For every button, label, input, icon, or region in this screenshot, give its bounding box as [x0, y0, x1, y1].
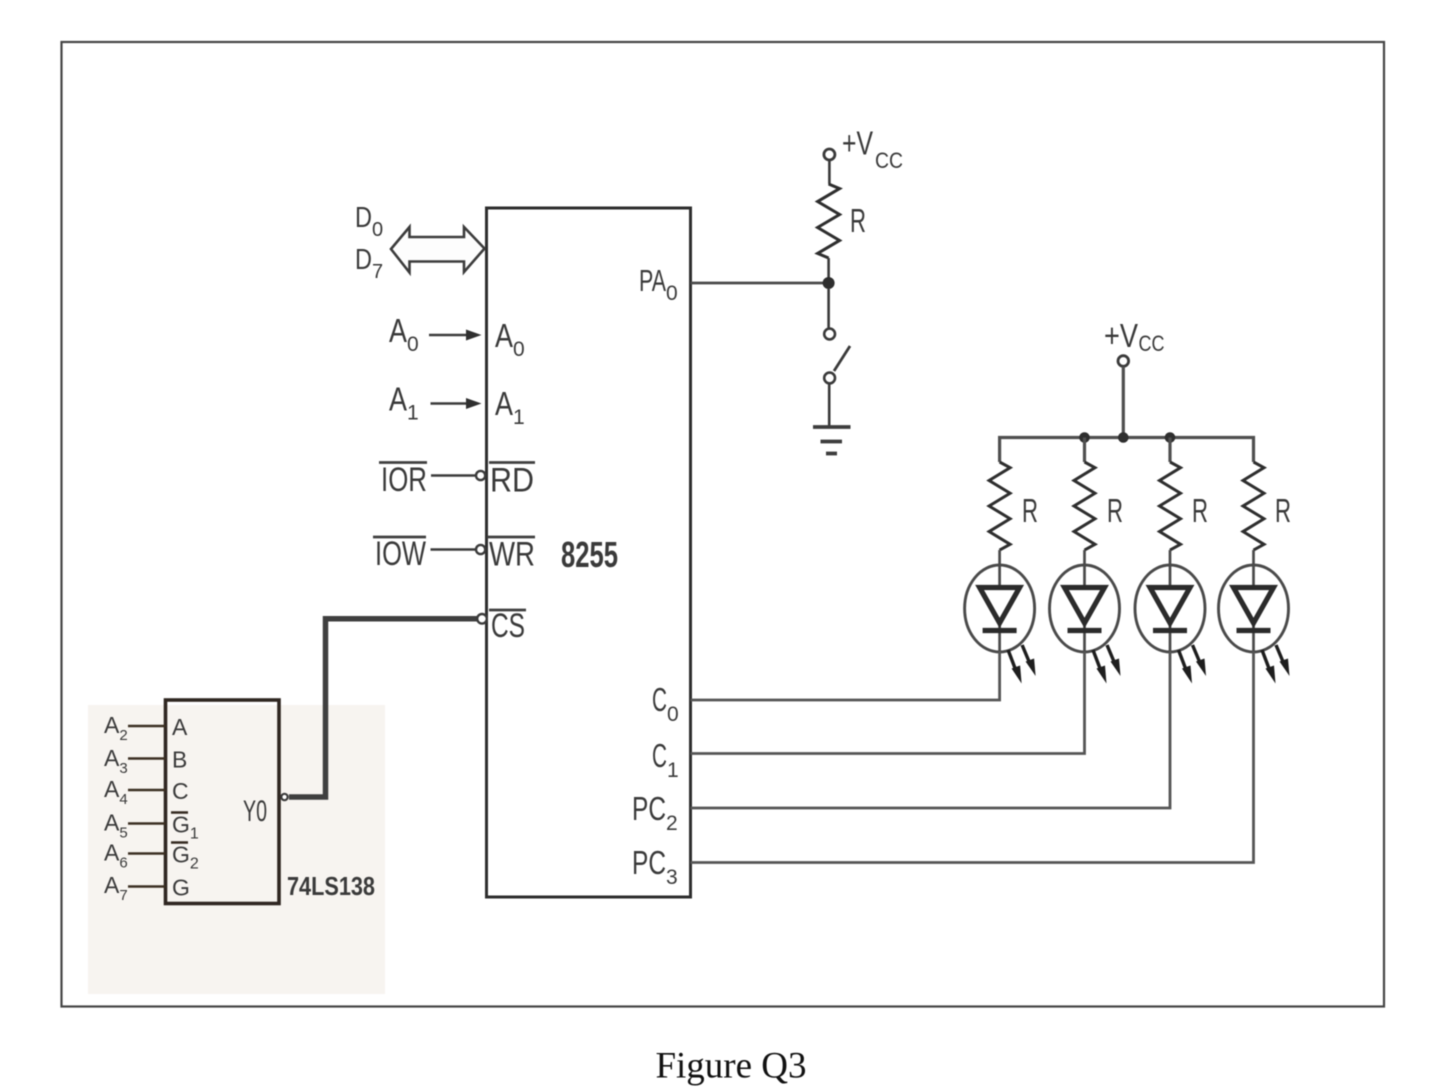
node junction at PA0	[823, 277, 835, 289]
VCC terminal of LED supply	[1104, 317, 1165, 366]
resistor R branch 2	[1074, 462, 1123, 550]
IC U2 74LS138 box	[166, 700, 280, 904]
svg-text:CC: CC	[1139, 331, 1165, 356]
junction node branch 3	[1165, 432, 1176, 443]
VCC terminal of pull-up	[824, 125, 903, 174]
svg-text:R: R	[1022, 492, 1038, 529]
label A7 and wire	[104, 872, 166, 904]
pin label G2 (active low)	[171, 842, 199, 873]
wire resistor to node	[827, 258, 830, 283]
label IOW (active low)	[373, 535, 426, 573]
wire PC3 to LED D4	[691, 652, 1254, 863]
wire VCC to LED bus	[1122, 367, 1125, 438]
pin label CS (active low)	[489, 607, 526, 645]
ground	[813, 427, 851, 454]
svg-text:G: G	[172, 875, 190, 901]
pin label G1 (active low)	[171, 812, 199, 843]
svg-text:R: R	[1192, 492, 1208, 529]
svg-text:RD: RD	[490, 462, 534, 500]
svg-text:+V: +V	[842, 125, 873, 162]
wire VCC to resistor	[828, 160, 831, 184]
svg-text:IOW: IOW	[375, 535, 426, 573]
wire PA0 to node	[691, 282, 829, 285]
svg-text:R: R	[1107, 492, 1123, 529]
svg-text:74LS138: 74LS138	[287, 871, 375, 901]
wire IOW to WR with bubble	[431, 545, 486, 554]
data bus bidirectional arrow D0-D7	[391, 227, 485, 273]
svg-text:Figure Q3: Figure Q3	[655, 1046, 806, 1087]
label IOR (active low)	[379, 461, 427, 499]
pin label RD (active low)	[489, 462, 535, 500]
LED D1	[965, 550, 1036, 684]
resistor R branch 1	[989, 462, 1038, 550]
VCC bus wire over LED branches	[1000, 438, 1254, 463]
thick chip-select wire from Y0 to CS with bubble	[289, 614, 487, 797]
LED D4	[1219, 550, 1290, 684]
junction node branch 2	[1079, 432, 1090, 443]
wire IOR to RD with bubble	[431, 471, 485, 480]
resistor R branch 4	[1243, 462, 1291, 550]
wire node to switch	[827, 289, 830, 328]
LED D2	[1050, 550, 1121, 684]
IC U1 8255 box	[487, 208, 691, 897]
svg-text:IOR: IOR	[381, 461, 427, 499]
svg-text:C: C	[172, 778, 189, 804]
wire C1 to LED D2	[691, 652, 1085, 754]
svg-text:+V: +V	[1104, 317, 1138, 354]
wire branch 2 top	[1083, 438, 1086, 463]
pin label Y0 with output bubble	[243, 794, 288, 828]
wire A1 input arrow	[431, 398, 482, 409]
label A5 and wire	[104, 810, 166, 842]
pin label WR (active low)	[487, 536, 535, 574]
svg-text:CS: CS	[491, 607, 525, 645]
label A6 and wire	[104, 840, 166, 872]
wire C0 to LED D1	[691, 652, 1000, 701]
label A3 and wire	[104, 745, 166, 777]
LED D3	[1135, 550, 1206, 684]
wire PC2 to LED D3	[691, 652, 1171, 809]
svg-text:WR: WR	[489, 536, 535, 574]
junction node VCC feed	[1118, 432, 1129, 443]
switch SW1	[824, 329, 850, 426]
label A2 and wire	[104, 712, 166, 744]
svg-text:A: A	[172, 714, 188, 740]
resistor R pull-up	[818, 184, 866, 258]
svg-text:R: R	[1275, 492, 1291, 529]
label A4 and wire	[104, 776, 166, 808]
wire A0 input arrow	[429, 330, 482, 341]
svg-text:CC: CC	[875, 148, 903, 173]
svg-text:Y0: Y0	[243, 795, 267, 828]
wire branch 3 top	[1168, 438, 1171, 463]
resistor R branch 3	[1160, 462, 1209, 550]
svg-text:B: B	[172, 747, 187, 773]
svg-text:R: R	[850, 202, 866, 239]
svg-text:8255: 8255	[561, 534, 618, 575]
